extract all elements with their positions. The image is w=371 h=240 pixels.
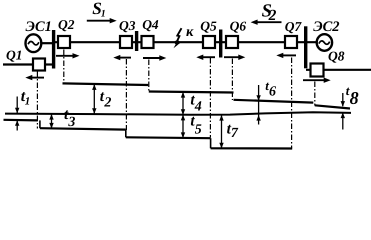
dash-dot drop line under Q2: [63, 50, 65, 83]
measurement arrow t3: [51, 114, 53, 128]
dash-dot drop line under Q1: [37, 50, 314, 149]
svg-text:4: 4: [194, 99, 202, 114]
svg-text:3: 3: [67, 115, 75, 130]
svg-text:Q8: Q8: [328, 49, 345, 64]
svg-text:Q2: Q2: [58, 17, 75, 32]
wire main line bus A1 to bus A4: [54, 41, 317, 43]
direction arrow under Q6 (right): [224, 56, 241, 58]
wire Q1 to bus A1: [45, 63, 54, 65]
breaker Q7: [285, 36, 297, 48]
breaker Q5: [203, 36, 215, 48]
wire generator ЭС1 to bus A1: [40, 42, 54, 44]
generator ЭС2: [317, 34, 332, 51]
bus A1: [52, 30, 55, 69]
svg-text:к: к: [186, 24, 194, 40]
direction arrow under Q4 (right): [143, 57, 162, 59]
bus A3 between Q5 and Q6: [219, 30, 222, 58]
wire bus A4 to Q8 and right edge: [306, 69, 371, 71]
measurement arrow t4: [182, 92, 184, 115]
time grading diagram lines: [4, 83, 352, 148]
breaker Q6: [226, 36, 238, 48]
power direction arrow S2 (left): [256, 21, 282, 23]
svg-text:Q3: Q3: [119, 18, 136, 33]
measurement arrow t6 (through): [258, 85, 260, 125]
measurement arrow t1 (outside): [15, 84, 345, 148]
direction arrow under Q1 (left): [25, 18, 330, 83]
svg-text:Q4: Q4: [142, 17, 159, 32]
svg-text:ЭС1: ЭС1: [26, 19, 52, 35]
svg-text:7: 7: [231, 126, 239, 141]
time level line t3: [40, 128, 126, 129]
measurement arrow t5: [182, 115, 184, 138]
measurement arrow t8 (through): [342, 93, 344, 106]
svg-text:5: 5: [195, 122, 202, 137]
time level line t4: [149, 92, 234, 93]
dash-dot drop line under Q7: [291, 58, 293, 149]
step riser t5 to t7: [210, 138, 212, 148]
breaker Q4: [142, 36, 154, 48]
time level line t6: [234, 100, 314, 103]
breaker Q2: [58, 36, 70, 48]
breaker Q8: [311, 64, 324, 77]
direction arrow under Q7 (left): [281, 54, 296, 56]
bus A2 between Q3 and Q4: [135, 31, 138, 51]
time level line t2: [63, 83, 149, 85]
svg-text:6: 6: [269, 84, 276, 99]
svg-text:Q1: Q1: [6, 47, 23, 62]
fault K lightning bolt: [174, 28, 182, 48]
dash-dot drop line under Q6: [231, 59, 233, 101]
svg-text:1: 1: [25, 96, 31, 108]
svg-text:Q7: Q7: [285, 19, 303, 34]
generator ЭС1: [26, 34, 42, 52]
svg-text:Q5: Q5: [200, 18, 217, 33]
time level line t5: [126, 136, 211, 139]
breaker Q1: [33, 59, 45, 71]
svg-text:2: 2: [268, 7, 277, 24]
measurement arrow t2: [93, 85, 95, 114]
step riser t3 to t5: [125, 130, 127, 138]
step riser t1 to t3: [39, 120, 41, 128]
dash-dot drop line under Q5: [209, 58, 211, 138]
dash-dot drop line under Q8: [314, 82, 316, 106]
direction arrow under Q5 (left): [201, 56, 215, 58]
direction arrow under Q3 (left): [118, 57, 131, 59]
breaker Q3: [120, 36, 132, 48]
svg-text:1: 1: [101, 9, 106, 20]
time axis line: [5, 112, 351, 115]
dash-dot drop line under Q4: [148, 60, 150, 92]
bus A4 before ЭС2: [304, 26, 307, 68]
wire line to Q1 from left edge: [3, 63, 33, 65]
direction arrow under Q2 (right): [56, 55, 75, 57]
time level line t7: [211, 147, 293, 149]
svg-text:2: 2: [103, 95, 111, 110]
time level line t1: [4, 119, 38, 122]
dash-dot drop line under Q3: [125, 59, 127, 130]
power direction arrow S1 (right): [87, 20, 112, 22]
svg-text:ЭС2: ЭС2: [313, 19, 339, 35]
svg-text:8: 8: [350, 88, 359, 108]
time level line t8: [315, 105, 350, 108]
measurement arrow t7: [221, 115, 223, 148]
svg-text:Q6: Q6: [230, 18, 247, 33]
direction arrow under Q8 (right): [303, 79, 326, 81]
